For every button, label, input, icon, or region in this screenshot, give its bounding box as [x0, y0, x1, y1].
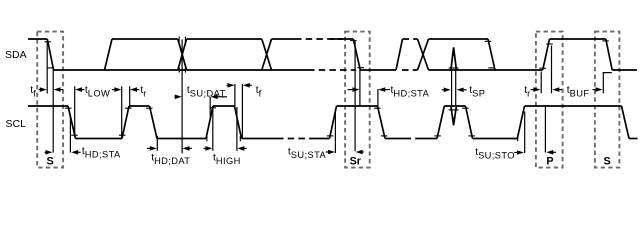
- tick SDA fall3 top: [602, 40, 609, 42]
- tick SCL rise3 bottom: [327, 135, 334, 137]
- wire SCL rise 2: [206, 106, 213, 139]
- wire SCL fall 4: [378, 106, 386, 139]
- wire SCL rise 5: [517, 106, 524, 139]
- wire SDA high into Sr: [330, 38, 353, 40]
- arrow tHD;STA2 right: [383, 89, 391, 91]
- tick SCL fall1 bottom: [71, 134, 78, 136]
- wire SDA high rail 1: [112, 38, 178, 40]
- wire SDA low dashed 2: [402, 69, 418, 71]
- wire SDA crossover X2: [262, 39, 272, 70]
- tick SDA fall2 bottom: [488, 67, 495, 69]
- arrow tHD;STA2 left: [348, 89, 356, 91]
- arrow tSU;STA right: [360, 151, 364, 153]
- tick SCL fall4 bottom: [381, 135, 388, 137]
- arrow tSU;STO: [514, 152, 520, 154]
- wire SDA high rail 3: [429, 38, 489, 40]
- tick SCL fall3 bottom: [239, 136, 241, 141]
- wire SCL high 2: [129, 105, 150, 107]
- tSP shaft left: [451, 70, 453, 106]
- arrow tf1 left: [39, 89, 43, 91]
- wire SCL high 3: [213, 105, 235, 107]
- ref line tHD;STA2 right: [377, 89, 379, 106]
- arrow tBUF right: [593, 89, 599, 91]
- bracket tLOW left: [74, 86, 76, 136]
- tick X1 top right: [184, 37, 186, 42]
- wire SDA high rail 2: [187, 38, 262, 40]
- wire SDA fall start S2: [606, 39, 612, 70]
- tick SCL rise4 bottom: [434, 135, 441, 137]
- wire SCL high 4: [337, 105, 378, 107]
- wire SCL high 5: [444, 105, 465, 107]
- tick SCL rise1 bottom: [119, 134, 126, 136]
- annotation labels row 2: [82, 146, 515, 166]
- SCL waveform solid segments: [28, 106, 638, 139]
- wire SCL initial high: [28, 105, 68, 107]
- svg-text:SCL: SCL: [6, 118, 27, 130]
- tick SDA riseP bottom: [539, 67, 546, 69]
- tick SCL rise2 bottom: [206, 136, 208, 141]
- wire SDA low tail: [612, 69, 637, 71]
- ref line tSU;STA right at Sr fall start: [354, 42, 356, 152]
- arrow tSU;DAT left: [175, 96, 178, 98]
- tick SDA Sr fall top: [350, 40, 357, 42]
- wire SCL low dashed 1: [277, 138, 311, 140]
- wire SDA rise after Sr: [396, 39, 403, 70]
- wire SDA high solid after X2: [272, 38, 296, 40]
- svg-text:S: S: [603, 155, 610, 167]
- arrow tSP left: [442, 89, 447, 91]
- wire SDA crossover X3: [418, 39, 429, 70]
- wire SDA rise envelope open: [105, 39, 113, 70]
- ref line tf1 right / tHD;STA1 left shared: [52, 69, 54, 153]
- wire SCL low 4 solid: [385, 138, 405, 140]
- spike on SDA for tSP: [451, 47, 457, 70]
- svg-text:Sr: Sr: [350, 155, 362, 167]
- wire SCL fall 6: [622, 106, 630, 139]
- SDA waveform dashed segments: [295, 39, 418, 70]
- svg-text:S: S: [46, 155, 53, 167]
- ref line tf2 right: [241, 84, 243, 138]
- start condition box S2: [595, 32, 620, 168]
- arrow tHD;DAT right: [187, 147, 192, 149]
- ref line tf1 left at SDA fall start: [46, 41, 48, 94]
- wire SCL low solid before rise 3: [311, 138, 330, 140]
- arrow tSU;DAT right: [215, 96, 227, 98]
- ref line tHD;STA2 left at Sr fall end: [359, 70, 361, 106]
- wire SCL low 3 solid: [242, 138, 278, 140]
- arrow tSU;STA: [326, 151, 331, 153]
- SCL waveform dashed segments: [277, 138, 421, 140]
- threshold tick marks: [44, 37, 608, 142]
- ref line tSU;STO left: [524, 112, 526, 154]
- tick X1 bottom right: [184, 68, 186, 73]
- ref line tSU;DAT left / tHD;DAT right shared: [181, 40, 183, 154]
- tick SCL fall2 top: [146, 107, 153, 109]
- stop condition box P: [536, 32, 563, 168]
- ref line tHD;STA1 right on SCL fall: [69, 116, 71, 153]
- bracket tLOW right: [121, 86, 123, 138]
- arrow tf2 right: [247, 84, 252, 86]
- tick X1 top left: [178, 37, 180, 42]
- wire SCL rise 1: [122, 106, 129, 139]
- arrowhead up tSP: [452, 49, 456, 56]
- wire SCL rise 4: [437, 106, 444, 139]
- arrow tHD;STA1 left: [45, 151, 49, 153]
- wire SDA low dashed: [308, 69, 356, 71]
- tick SDA fall2 top: [485, 40, 492, 42]
- wire SDA high dashed 2: [403, 38, 418, 40]
- tick SCL rise5 bottom: [517, 136, 519, 141]
- repeated start box Sr: [345, 32, 370, 168]
- arrow tHIGH left: [203, 147, 208, 149]
- wire SCL low tail: [629, 138, 638, 140]
- tSP shaft right: [455, 70, 457, 106]
- wire SCL fall 3: [235, 106, 242, 139]
- arrow tr2: [531, 89, 537, 91]
- tick SDA Sr fall bottom: [357, 67, 364, 69]
- spike down on SCL for tSP: [451, 106, 457, 125]
- ref line tr2: [540, 72, 542, 94]
- arrow tHD;STA1 right: [75, 151, 80, 153]
- annotation arrows row 2: [45, 146, 556, 155]
- wire SDA high after P: [550, 38, 606, 40]
- annotation arrows row 1: [39, 83, 603, 99]
- arrow tBUF left: [557, 89, 563, 91]
- wire SCL low 5: [473, 138, 518, 140]
- wire SDA low solid after X2: [272, 69, 309, 71]
- arrow tf1 right: [58, 89, 63, 91]
- wire SCL rise 3: [330, 106, 337, 139]
- wire SDA high dashed: [295, 38, 343, 40]
- ref line tSU;DAT right: [209, 97, 211, 117]
- annotation labels row 1: [30, 85, 589, 99]
- wire SDA low rail: [54, 69, 272, 71]
- wire SDA fall before stop: [488, 39, 495, 70]
- wire SDA low rail before stop: [429, 69, 543, 71]
- tick SCL fall5 bottom: [468, 135, 475, 137]
- wire SDA fall at start S1: [47, 39, 53, 70]
- tick SCL rise1 top: [125, 107, 132, 109]
- arrow tHIGH right: [242, 147, 247, 149]
- tick SCL spike: [449, 109, 459, 111]
- arrow tHD;DAT left: [147, 147, 153, 149]
- wire SCL fall 1: [68, 106, 76, 139]
- svg-text:P: P: [546, 155, 553, 167]
- measurement reference lines: [47, 40, 612, 154]
- ref line tHIGH left: [212, 107, 214, 151]
- arrow tSP right: [461, 89, 467, 91]
- tick SDA fall1 top: [44, 41, 51, 43]
- arrow tLOW right: [112, 89, 117, 91]
- ref line tSU;STA left: [334, 112, 336, 154]
- tick SCL fall1 top: [65, 107, 72, 109]
- ref line tBUF right with hook: [603, 73, 612, 94]
- ref line tf2 left: [234, 84, 236, 106]
- wire SDA low after Sr: [360, 69, 396, 71]
- wire SDA crossover X1: [178, 39, 187, 70]
- wire SCL low solid before rise 4: [421, 138, 438, 140]
- ref line tSU;STO right: [544, 107, 546, 153]
- arrow tr1: [135, 89, 139, 91]
- ref line tHIGH right: [236, 107, 238, 151]
- SDA waveform solid segments: [28, 39, 637, 70]
- wire SCL low 2: [157, 138, 206, 140]
- tick SDA spike base: [449, 67, 459, 69]
- wire SCL low 1: [76, 138, 123, 140]
- tick SDA fall1 bottom: [48, 67, 55, 69]
- arrow tSU;STO right: [551, 151, 557, 153]
- wire SCL fall 5: [466, 106, 473, 139]
- tick SCL rise2 top: [210, 107, 217, 109]
- ref line tHD;DAT left: [156, 136, 158, 151]
- wire SDA rise stop condition P: [543, 39, 550, 70]
- bracket tr1: [129, 86, 131, 107]
- start condition box S1: [37, 32, 63, 168]
- tick X1 bottom left: [178, 68, 180, 73]
- arrowhead down tSP: [452, 118, 456, 125]
- arrow tf2 left: [227, 84, 231, 86]
- wire SCL high 6: [525, 105, 622, 107]
- wire SDA fall repeated start Sr: [353, 39, 360, 70]
- wire SDA initial high: [28, 38, 47, 40]
- wire SCL low dashed 2: [405, 138, 421, 140]
- tick SDA riseP top: [546, 43, 553, 45]
- tick SCL fall5 top: [462, 107, 469, 109]
- svg-text:SDA: SDA: [5, 49, 27, 61]
- tick SCL fall4 top: [374, 107, 381, 109]
- ref line tBUF left: [551, 46, 553, 94]
- wire SCL fall 2: [150, 106, 158, 139]
- arrow tLOW left: [80, 89, 85, 91]
